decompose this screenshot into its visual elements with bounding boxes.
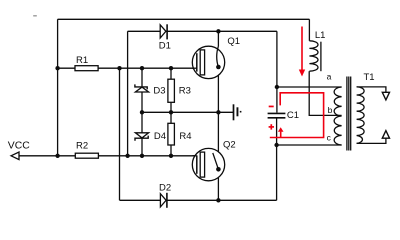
svg-text:T1: T1 [364,72,375,83]
svg-text:D1: D1 [159,40,171,51]
node Q2 bottom rail [216,198,220,202]
wire VCC line [19,155,197,157]
wire L1 top lead [308,19,310,41]
svg-text:R3: R3 [179,85,191,96]
arrow secondary bottom terminal [382,131,389,139]
node R1 right [117,66,121,70]
stray gray dash [33,15,37,17]
svg-text:b: b [328,105,333,115]
svg-text:c: c [327,133,332,143]
svg-text:R2: R2 [76,141,88,152]
red current loop highlight [270,93,324,138]
node R3 R4 mid [169,110,173,114]
battery bias cell [234,104,242,120]
svg-text:D2: D2 [159,182,171,193]
node D3 D4 mid [140,110,144,114]
svg-text:a: a [327,71,332,81]
red arrow L1 current [299,27,305,77]
svg-text:D3: D3 [153,85,165,96]
svg-text:R4: R4 [179,131,191,142]
wire L1 bottom lead to node b [309,71,341,115]
svg-text:C1: C1 [287,110,299,121]
wire D3 D4 chain [141,68,143,156]
transformer T1 primary winding [334,87,341,145]
node Q1 top [216,29,220,33]
resistor R4 [168,123,175,145]
node Q mid rail [216,110,220,114]
svg-text:D4: D4 [154,131,166,142]
node C1 bottom [274,143,278,147]
red arrow into C1 positive [278,127,284,132]
resistor R3 [168,79,175,102]
wire D1 branch vertical [127,31,129,156]
node R1 left [55,66,59,70]
wire D1 line [128,30,277,32]
node R4 bottom [169,154,173,158]
zener diode D3 [135,84,149,92]
VCC arrow terminal [11,152,19,160]
node D4 bottom [140,154,144,158]
resistor R1 [75,66,98,71]
diode D1 [160,24,167,39]
wire R3 R4 chain [170,68,172,156]
node C1 top [275,85,279,89]
node D3 top [140,66,144,70]
wire R1-to-D2 vertical [119,68,121,200]
label minus red [269,106,274,108]
wire top rail [58,18,310,20]
wire Q chain upper [217,31,219,46]
transistor Q2 [192,148,224,180]
wire secondary top tap [357,87,386,92]
svg-text:VCC: VCC [8,140,30,151]
wire C1 branch lower [276,119,278,201]
node D1 branch on VCC line [125,154,129,158]
transformer T1 core [347,77,351,151]
diode D2 [160,193,167,208]
svg-text:R1: R1 [76,55,88,66]
wire node c line [277,144,342,146]
wire secondary bottom tap [357,138,386,143]
transformer T1 secondary winding [357,87,365,143]
wire Q chain lower [217,169,219,200]
resistor R2 [75,153,98,158]
node VCC left vertical [55,154,59,158]
svg-text:Q2: Q2 [223,140,236,151]
node R3 top [169,66,173,70]
wire left vertical [57,19,59,156]
wire Q chain middle [217,67,219,155]
inductor L1 [309,41,321,71]
transistor Q1 [192,46,224,78]
wire bottom rail [120,199,277,201]
arrow secondary top terminal [382,92,389,100]
wire C1 branch upper [276,31,278,112]
capacitor C1 [268,113,286,117]
wire mid rail [142,111,234,113]
wire R1 line [58,67,197,69]
wire node a line [277,86,342,88]
svg-text:Q1: Q1 [227,36,240,47]
label plus red [269,124,274,129]
svg-text:L1: L1 [315,30,326,41]
zener diode D4 [135,133,149,141]
